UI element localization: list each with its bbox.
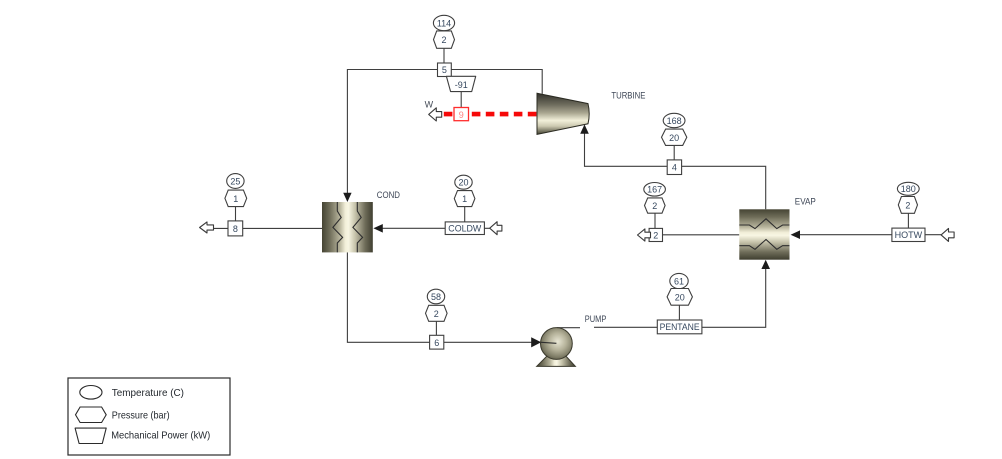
wire connector hexagon-2 to HOTW box <box>907 213 909 228</box>
svg-text:2: 2 <box>653 230 658 240</box>
svg-text:COND: COND <box>377 190 400 201</box>
arrowhead COLDW into COND right <box>373 224 382 233</box>
wire stream HOTW into evaporator <box>799 234 941 236</box>
heat exchanger EVAP <box>739 209 789 259</box>
svg-text:20: 20 <box>669 133 679 143</box>
work stream label box 9 (red) <box>454 108 469 121</box>
legend mechanical power symbol <box>75 428 106 443</box>
svg-text:PUMP: PUMP <box>585 314 607 325</box>
wire work stream W9 red dashed <box>444 112 537 117</box>
heat exchanger COND <box>322 202 373 252</box>
stream label box COLDW <box>445 222 484 235</box>
wire connector hexagon-20 to box 4 <box>673 145 675 160</box>
wire stream 4 (evaporator to turbine) <box>585 128 766 209</box>
svg-text:2: 2 <box>905 201 910 211</box>
pressure hexagon 2 (HOTW) <box>898 197 917 214</box>
turbine <box>537 93 589 134</box>
svg-text:2: 2 <box>434 309 439 319</box>
pressure hexagon 2 (stream 5) <box>434 31 455 48</box>
temperature ellipse 20 (COLDW) <box>455 175 472 189</box>
wire stream 5 (turbine outlet to condenser) <box>347 70 542 201</box>
svg-text:-91: -91 <box>455 80 468 90</box>
arrowhead PENTANE into EVAP bottom <box>761 260 770 269</box>
svg-text:Temperature (C): Temperature (C) <box>112 387 184 399</box>
svg-text:EVAP: EVAP <box>795 197 816 208</box>
temperature ellipse 61 <box>670 273 688 288</box>
legend pressure hexagon <box>76 407 107 423</box>
stream label box HOTW <box>892 228 925 241</box>
svg-text:HOTW: HOTW <box>895 230 923 240</box>
pump <box>537 328 576 367</box>
stream label box 8 <box>228 221 243 236</box>
svg-text:1: 1 <box>233 194 238 204</box>
wire stream 6 (condenser to pump) <box>347 252 556 342</box>
wire connector hexagon-2 to box 2 <box>654 213 656 228</box>
svg-text:25: 25 <box>230 176 240 186</box>
pressure hexagon 2 (stream 2) <box>645 198 666 213</box>
pressure hexagon 1 (stream 8) <box>225 190 247 207</box>
wire connector hexagon-1 to COLDW box <box>464 207 466 222</box>
svg-text:6: 6 <box>434 338 439 348</box>
temperature ellipse 180 <box>897 182 919 195</box>
legend box <box>68 378 230 455</box>
COLDW feed arrow <box>490 222 502 235</box>
wire connector hexagon-1 to box 8 <box>235 207 237 221</box>
HOTW feed arrow <box>941 228 954 241</box>
stream label box 4 <box>667 160 681 175</box>
pressure hexagon 1 (COLDW) <box>454 191 475 207</box>
wire connector hexagon-2 to box 6 <box>435 321 437 335</box>
arrowhead HOTW into EVAP right <box>791 230 800 239</box>
temperature ellipse 58 <box>427 289 444 304</box>
stream label box 5 <box>438 63 452 77</box>
pressure hexagon 20 (PENTANE) <box>667 289 692 306</box>
svg-text:58: 58 <box>431 292 441 302</box>
svg-text:20: 20 <box>458 178 468 188</box>
pressure hexagon 2 (stream 6) <box>426 305 448 321</box>
svg-text:4: 4 <box>672 163 677 173</box>
svg-text:5: 5 <box>442 65 447 75</box>
arrowhead stream 6 into pump <box>531 337 541 347</box>
svg-text:114: 114 <box>437 18 451 28</box>
pressure hexagon 20 (stream 4) <box>662 129 687 145</box>
wire connector hexagon-2 to box 5 <box>443 48 445 63</box>
svg-text:1: 1 <box>462 194 467 204</box>
wire stream 8 (condenser outlet to exit) <box>213 227 322 229</box>
work stream exit arrow W <box>429 108 442 121</box>
wire connector hexagon-20 to PENTANE box <box>678 305 680 320</box>
wire stream COLDW into condenser <box>382 227 490 229</box>
stream label box PENTANE <box>657 320 702 334</box>
svg-text:Mechanical Power (kW): Mechanical Power (kW) <box>111 430 210 442</box>
svg-text:9: 9 <box>459 110 464 120</box>
svg-text:168: 168 <box>667 116 682 126</box>
stream label box 2 <box>649 228 662 241</box>
svg-text:TURBINE: TURBINE <box>611 91 645 102</box>
arrowhead stream 4 into turbine <box>580 124 589 133</box>
wire stream PENTANE (pump to evaporator) <box>557 327 580 329</box>
svg-text:Pressure (bar): Pressure (bar) <box>112 410 170 422</box>
legend temperature ellipse <box>80 386 102 400</box>
svg-text:61: 61 <box>674 276 684 286</box>
stream 8 exit arrow <box>200 222 214 233</box>
svg-text:COLDW: COLDW <box>448 223 481 233</box>
svg-text:2: 2 <box>652 201 657 211</box>
temperature ellipse 114 <box>433 15 454 30</box>
svg-text:W: W <box>425 100 434 110</box>
wire stream 2 (evaporator outlet to exit) <box>650 234 739 236</box>
temperature ellipse 167 <box>644 183 666 197</box>
svg-text:2: 2 <box>441 35 446 45</box>
mechanical power symbol -91 <box>446 76 475 91</box>
svg-text:PENTANE: PENTANE <box>660 322 700 332</box>
stream 2 exit arrow <box>638 229 651 241</box>
svg-text:20: 20 <box>675 293 685 303</box>
svg-text:180: 180 <box>901 184 916 194</box>
stream label box 6 <box>430 335 444 349</box>
temperature ellipse 25 <box>227 174 244 189</box>
arrowhead stream 5 into COND top <box>343 193 351 202</box>
svg-text:8: 8 <box>233 224 238 234</box>
temperature ellipse 168 <box>663 113 685 127</box>
wire connector work symbol to box 9 <box>460 92 462 108</box>
svg-text:167: 167 <box>647 185 662 195</box>
